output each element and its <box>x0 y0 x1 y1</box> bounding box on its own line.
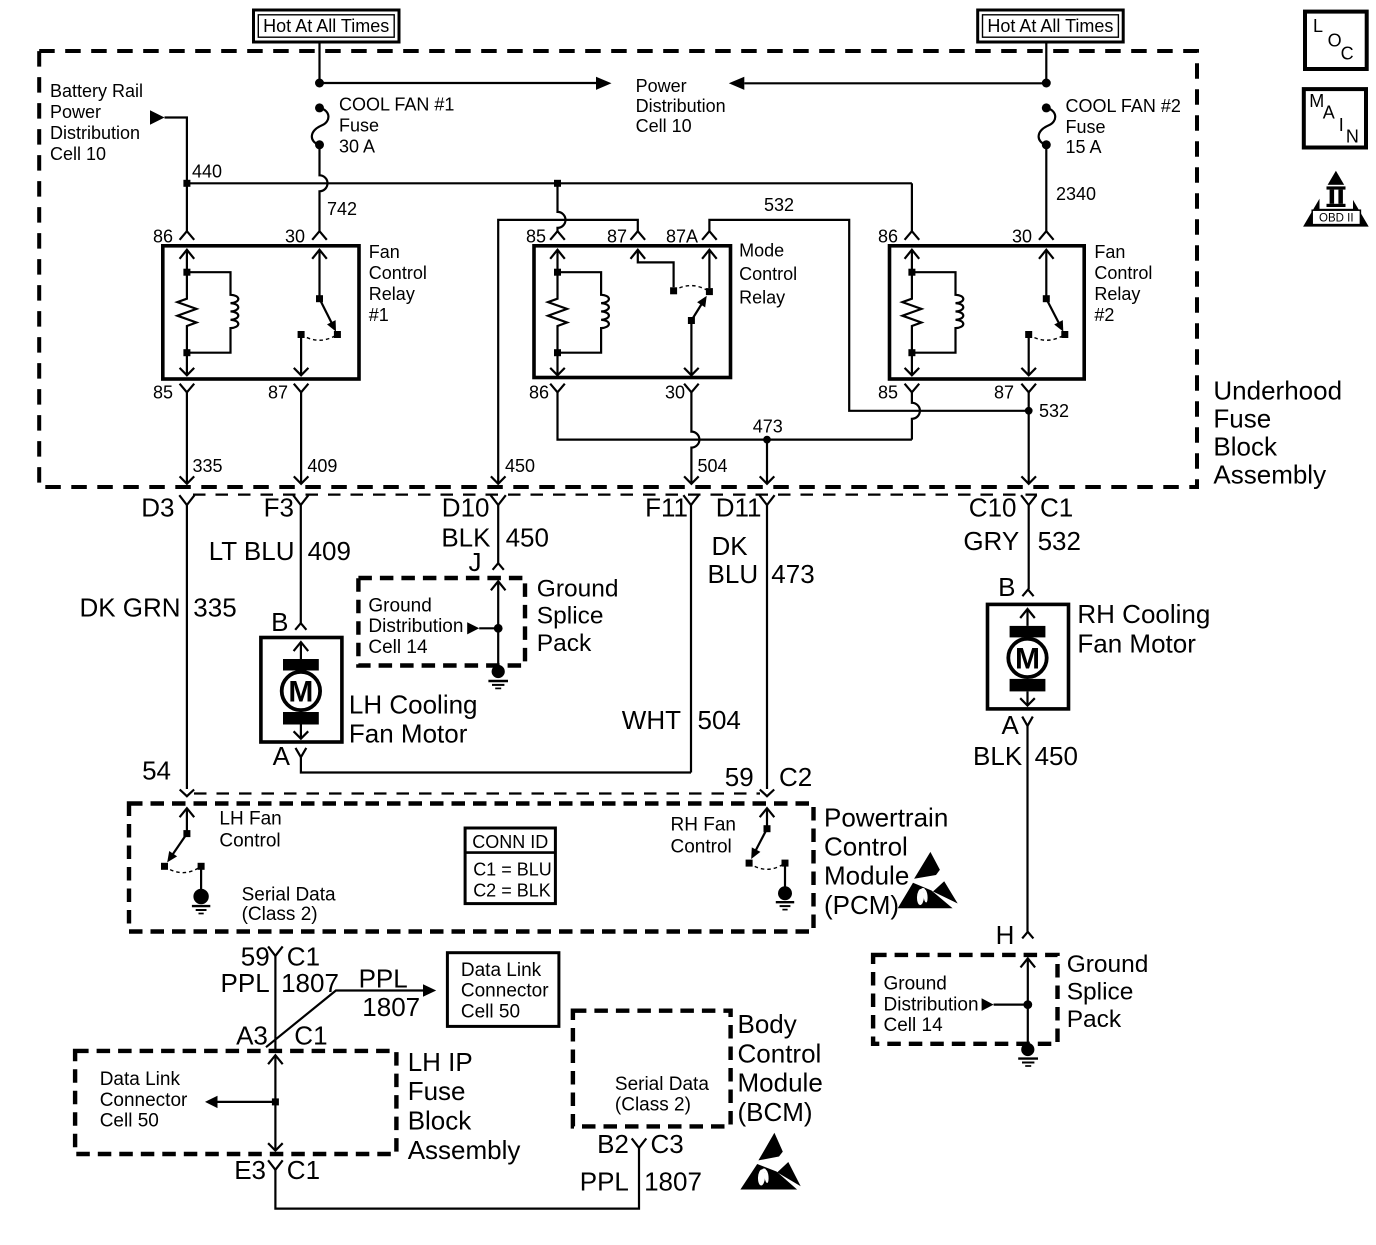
svg-text:Body: Body <box>738 1009 797 1039</box>
svg-text:473: 473 <box>771 559 814 589</box>
svg-text:742: 742 <box>327 199 357 219</box>
wire PPL 1807 (PCM to LH IP fuse block) <box>274 956 276 1050</box>
relay coil arrow pin (top) <box>180 250 195 259</box>
label Serial Data (Class 2) PCM <box>242 884 336 925</box>
relay coil resistor <box>902 272 921 353</box>
label COOL FAN #2 Fuse 15 A <box>1066 96 1181 157</box>
svg-text:Mode: Mode <box>739 241 784 261</box>
relay coil inductor <box>912 272 963 353</box>
relay coil arrow pin (top) <box>550 250 565 259</box>
wire 473 branch to D11 <box>766 440 768 484</box>
svg-text:C1 = BLU: C1 = BLU <box>473 859 552 879</box>
svg-text:Control: Control <box>369 263 427 283</box>
splice pin H <box>1022 932 1033 939</box>
svg-text:87: 87 <box>994 383 1014 403</box>
svg-text:Underhood: Underhood <box>1213 376 1342 406</box>
svg-text:Ground: Ground <box>368 595 431 616</box>
svg-text:30: 30 <box>285 227 305 247</box>
ground splice (RH) <box>1018 1043 1038 1066</box>
svg-text:I: I <box>1339 115 1344 135</box>
svg-text:85: 85 <box>153 383 173 403</box>
relay coil resistor <box>548 272 567 353</box>
svg-text:Splice: Splice <box>537 603 604 630</box>
svg-text:F11: F11 <box>645 493 688 523</box>
relay2 pin 87 <box>1021 384 1036 393</box>
relay2 pin 30 <box>1039 231 1054 240</box>
svg-text:M: M <box>1015 642 1040 675</box>
relay coil resistor <box>177 272 196 353</box>
LH fan control driver (PCM) <box>180 808 195 817</box>
svg-text:LH Cooling: LH Cooling <box>349 690 478 720</box>
svg-text:1807: 1807 <box>644 1166 702 1196</box>
label Underhood Fuse Block Assembly <box>1213 376 1342 490</box>
svg-text:COOL FAN #2: COOL FAN #2 <box>1066 96 1181 116</box>
svg-text:Distribution: Distribution <box>50 123 140 143</box>
svg-text:504: 504 <box>698 456 728 476</box>
svg-text:Relay: Relay <box>739 288 785 308</box>
ground splice (LH) <box>488 665 508 689</box>
svg-text:85: 85 <box>526 227 546 247</box>
svg-text:RH Cooling: RH Cooling <box>1077 599 1210 629</box>
wire BLK 450 (D10 to ground splice pack) <box>497 505 499 563</box>
svg-text:Fuse: Fuse <box>1213 404 1271 434</box>
svg-text:Fuse: Fuse <box>1066 117 1106 137</box>
wire DK GRN 335 (D3 to PCM) <box>186 505 188 789</box>
node Ground Distribution Cell 14 (RH) <box>884 974 1028 1037</box>
svg-text:Hot At All Times: Hot At All Times <box>263 16 389 36</box>
RH motor terminal B <box>1022 590 1033 597</box>
connector pin F11 <box>683 495 698 505</box>
legend OBD II symbol <box>1303 171 1369 227</box>
label Mode Control Relay <box>739 241 797 308</box>
svg-text:Control: Control <box>739 264 797 284</box>
fan control relay #1 box <box>163 246 359 379</box>
CONN ID table <box>465 828 555 904</box>
wire 440 <box>187 182 912 184</box>
svg-text:Data Link: Data Link <box>461 960 542 981</box>
ground symbol (RH fan driver) <box>776 886 794 909</box>
label Body Control Module (BCM) <box>738 1009 823 1127</box>
ground symbol (LH fan driver) <box>192 889 210 914</box>
svg-text:BLK: BLK <box>441 523 491 553</box>
svg-text:LT BLU: LT BLU <box>209 536 295 566</box>
wire hot1 to fuse <box>318 42 320 83</box>
svg-text:A: A <box>273 741 291 771</box>
connector E3 C1 <box>268 1160 283 1170</box>
svg-text:B: B <box>998 572 1015 602</box>
svg-text:409: 409 <box>307 456 337 476</box>
ground splice pack (RH) wire <box>1021 958 1036 967</box>
svg-text:Cell 10: Cell 10 <box>50 144 106 164</box>
wire hot2 to fuse2 <box>1045 42 1047 83</box>
svg-text:Control: Control <box>219 831 280 852</box>
svg-text:Assembly: Assembly <box>1213 460 1326 490</box>
label Ground Splice Pack (LH) <box>537 575 619 657</box>
svg-text:Control: Control <box>824 832 908 862</box>
wire 335 (relay1 85 to D3) <box>186 392 188 484</box>
svg-text:GRY: GRY <box>963 526 1019 556</box>
svg-text:C2 = BLK: C2 = BLK <box>473 881 551 901</box>
svg-text:Battery Rail: Battery Rail <box>50 81 143 101</box>
relay1 pin 85 <box>180 384 195 393</box>
wire WHT 504 (F11) <box>690 505 692 773</box>
wire LT BLU 409 (F3 to LH fan motor) <box>300 505 302 623</box>
svg-text:473: 473 <box>753 417 783 437</box>
svg-text:L: L <box>1313 16 1323 36</box>
wire BLK 450 (RH motor A to ground splice H) <box>1026 726 1028 932</box>
wire arrow to data link connector (left) <box>217 1101 275 1103</box>
svg-text:504: 504 <box>698 705 741 735</box>
svg-text:Pack: Pack <box>537 630 592 657</box>
wire GRY 532 (C10 to RH fan motor) <box>1028 505 1030 589</box>
svg-text:30 A: 30 A <box>339 137 375 157</box>
svg-text:CONN ID: CONN ID <box>472 832 548 852</box>
svg-text:PPL: PPL <box>580 1166 629 1196</box>
svg-text:86: 86 <box>153 227 173 247</box>
svg-text:DK: DK <box>711 531 748 561</box>
svg-text:Relay: Relay <box>1094 284 1140 304</box>
svg-text:30: 30 <box>665 383 685 403</box>
label Power Distribution Cell 10 <box>636 76 726 136</box>
svg-text:A: A <box>1323 103 1335 123</box>
hot at all times box 1 <box>254 10 400 42</box>
svg-text:Block: Block <box>408 1106 473 1136</box>
svg-text:LH Fan: LH Fan <box>219 808 281 829</box>
svg-text:Cell 50: Cell 50 <box>100 1111 159 1132</box>
node Data Link Connector Cell 50 (IP) <box>100 1069 188 1132</box>
wire 450 (mode 87 to D10) <box>498 220 638 484</box>
connector pin F3 <box>293 495 308 505</box>
svg-text:BLU: BLU <box>708 559 759 589</box>
ESD warning symbol (BCM) <box>740 1133 800 1190</box>
mode relay switch <box>631 250 646 259</box>
svg-text:B: B <box>271 607 288 637</box>
junction data link tap <box>272 1098 279 1105</box>
svg-text:A3: A3 <box>236 1021 268 1051</box>
wire LH motor A to F11 (WHT 504 return) <box>301 757 691 772</box>
svg-text:OBD II: OBD II <box>1319 213 1354 225</box>
wire 440 to relay2 86 <box>911 183 913 231</box>
svg-text:Ground: Ground <box>537 575 619 602</box>
svg-text:Distribution: Distribution <box>884 994 979 1015</box>
svg-text:Hot At All Times: Hot At All Times <box>987 16 1113 36</box>
wire 440 branch to mode 85 (hops) <box>558 183 566 231</box>
svg-text:Serial Data: Serial Data <box>242 884 336 905</box>
svg-text:Fan: Fan <box>1094 242 1125 262</box>
svg-text:Power: Power <box>636 76 687 96</box>
wire tap PPL 1807 to data link connector <box>266 991 423 1048</box>
legend MAIN box <box>1304 89 1366 147</box>
wire relay2 85 drop (hops over 532) <box>912 392 920 439</box>
svg-text:87: 87 <box>268 383 288 403</box>
mode relay pin 30 <box>684 384 699 393</box>
wire 2340 <box>1045 145 1047 231</box>
svg-text:Cell 14: Cell 14 <box>884 1015 944 1036</box>
fan control relay #2 box <box>890 246 1085 379</box>
svg-text:DK GRN: DK GRN <box>79 593 180 623</box>
wire through LH IP fuse block <box>268 1055 283 1064</box>
mode control relay box <box>534 246 731 378</box>
svg-text:Fan Motor: Fan Motor <box>349 719 468 749</box>
connector pin 59 C1 (PCM serial data) <box>268 946 283 956</box>
junction 532 <box>1025 407 1033 415</box>
label Serial Data (Class 2) BCM <box>615 1074 709 1116</box>
label Ground Splice Pack (RH) <box>1067 951 1149 1033</box>
svg-text:87: 87 <box>607 227 627 247</box>
wire arrow from right hot feed to Power Distribution <box>729 77 745 90</box>
svg-text:Module: Module <box>738 1068 823 1098</box>
svg-text:54: 54 <box>142 756 171 786</box>
svg-text:(Class 2): (Class 2) <box>242 904 318 925</box>
label Powertrain Control Module (PCM) <box>824 803 948 920</box>
ground splice pack (RH) dashed box <box>873 955 1057 1044</box>
svg-text:Power: Power <box>50 102 101 122</box>
svg-text:(BCM): (BCM) <box>738 1097 813 1127</box>
relay1 switch <box>312 250 327 259</box>
svg-text:Fan: Fan <box>369 242 400 262</box>
svg-text:Cell 50: Cell 50 <box>461 1002 520 1023</box>
svg-text:A: A <box>1001 710 1019 740</box>
data link connector cell 50 box (solid) <box>447 953 559 1027</box>
svg-text:Pack: Pack <box>1067 1006 1122 1033</box>
svg-text:Splice: Splice <box>1067 978 1134 1005</box>
fuse COOL FAN #2 15A <box>1042 103 1051 112</box>
label LH Fan Control <box>219 808 281 851</box>
label Fan Control Relay #1 <box>369 242 427 325</box>
label RH Cooling Fan Motor <box>1077 599 1210 658</box>
svg-text:M: M <box>288 676 313 709</box>
svg-text:#1: #1 <box>369 305 389 325</box>
connector pin 59 C2 (PCM) <box>760 790 774 797</box>
svg-text:2340: 2340 <box>1056 184 1096 204</box>
junction 440 left <box>183 180 190 187</box>
label COOL FAN #1 Fuse 30 A <box>339 95 454 157</box>
ESD warning symbol (PCM) <box>898 852 958 908</box>
svg-text:Fuse: Fuse <box>339 116 379 136</box>
svg-text:O: O <box>1328 30 1342 50</box>
RH fan control driver (PCM) <box>760 808 775 817</box>
relay2 pin 85 <box>905 384 920 393</box>
svg-text:C1: C1 <box>294 1021 327 1051</box>
wire arrow to Power Distribution Cell 10 (left) <box>320 82 597 84</box>
connector pin D11 <box>759 495 774 505</box>
label RH Fan Control <box>671 815 736 858</box>
svg-text:C1: C1 <box>287 1155 320 1185</box>
svg-text:532: 532 <box>764 195 794 215</box>
svg-text:Powertrain: Powertrain <box>824 803 948 833</box>
svg-text:86: 86 <box>878 227 898 247</box>
svg-text:J: J <box>469 547 482 577</box>
wire 742 (hops over 440) <box>320 145 328 231</box>
legend LOC box <box>1305 12 1367 69</box>
LH IP fuse block assembly dashed box <box>75 1051 396 1154</box>
svg-text:E3: E3 <box>234 1155 266 1185</box>
fuse COOL FAN #1 30A <box>315 103 324 112</box>
connector B2 C3 (BCM) <box>632 1138 647 1148</box>
wire 473 (mode 86 to relay2 85) <box>558 392 912 439</box>
svg-text:Cell 14: Cell 14 <box>368 637 428 658</box>
node Battery Rail Power Distribution Cell 10 <box>50 81 165 164</box>
LH cooling fan motor M1 <box>261 638 342 743</box>
wire E3 to BCM B2 <box>275 1148 639 1209</box>
svg-text:B2: B2 <box>597 1129 629 1159</box>
junction 473 <box>763 436 771 444</box>
svg-text:C3: C3 <box>651 1129 684 1159</box>
relay2 switch <box>1039 250 1054 259</box>
junction 440 / mode relay 85 <box>554 180 561 187</box>
relay1 pin 30 <box>312 231 327 240</box>
svg-text:450: 450 <box>506 523 549 553</box>
svg-text:Relay: Relay <box>369 284 415 304</box>
wire 409 (relay1 87 to F3) <box>300 392 302 484</box>
svg-text:Connector: Connector <box>461 981 549 1002</box>
connector pin 54 (PCM) <box>180 790 194 797</box>
svg-text:PPL: PPL <box>221 968 270 998</box>
svg-text:Control: Control <box>671 836 732 857</box>
svg-text:PPL: PPL <box>359 964 408 994</box>
underhood fuse block assembly dashed border <box>39 51 1197 487</box>
powertrain control module dashed box <box>129 804 814 932</box>
mode relay pin 87A <box>702 231 717 240</box>
svg-text:LH IP: LH IP <box>408 1047 473 1077</box>
svg-text:WHT: WHT <box>622 705 681 735</box>
relay1 pin 86 <box>180 231 195 240</box>
svg-text:Ground: Ground <box>884 974 947 995</box>
relay2 pin 86 <box>905 231 920 240</box>
svg-text:Control: Control <box>738 1038 822 1068</box>
label Fan Control Relay #2 <box>1094 242 1152 325</box>
svg-text:Distribution: Distribution <box>636 96 726 116</box>
connector pin D3 <box>179 495 194 505</box>
svg-text:(Class 2): (Class 2) <box>615 1095 691 1116</box>
svg-text:C2: C2 <box>779 762 812 792</box>
node Ground Distribution Cell 14 (LH) <box>368 595 498 658</box>
svg-text:15 A: 15 A <box>1066 137 1102 157</box>
svg-text:86: 86 <box>529 383 549 403</box>
svg-text:335: 335 <box>193 456 223 476</box>
svg-text:450: 450 <box>1035 741 1078 771</box>
svg-text:Fuse: Fuse <box>408 1076 466 1106</box>
svg-text:59: 59 <box>725 762 754 792</box>
mode relay pin 85 <box>550 231 565 240</box>
svg-text:440: 440 <box>192 162 222 182</box>
svg-text:Distribution: Distribution <box>368 616 463 637</box>
RH motor terminal A <box>1022 717 1033 726</box>
relay coil inductor <box>558 272 609 353</box>
svg-text:(PCM): (PCM) <box>824 890 899 920</box>
hot at all times box 2 <box>978 10 1123 42</box>
svg-text:450: 450 <box>505 456 535 476</box>
junction splice LH <box>494 624 503 633</box>
wire DK BLU 473 (D11 to PCM 59 C2) <box>766 505 768 789</box>
wire battery feed to 440 <box>165 118 187 232</box>
label LH Cooling Fan Motor <box>349 690 478 749</box>
svg-text:Cell 10: Cell 10 <box>636 116 692 136</box>
wire 532 (mode 87A to relay2 87) <box>709 220 1028 411</box>
svg-text:409: 409 <box>308 536 351 566</box>
RH cooling fan motor M2 <box>988 604 1069 709</box>
wire 532 (relay2 87 to C10) <box>1028 392 1030 484</box>
LH motor terminal B <box>295 623 306 630</box>
svg-text:H: H <box>996 920 1015 950</box>
svg-text:COOL FAN #1: COOL FAN #1 <box>339 95 454 115</box>
svg-text:1807: 1807 <box>362 992 420 1022</box>
svg-text:Ground: Ground <box>1067 951 1149 978</box>
svg-text:Data Link: Data Link <box>100 1069 181 1090</box>
svg-text:1807: 1807 <box>281 968 339 998</box>
svg-text:C10: C10 <box>969 493 1017 523</box>
body control module serial data dashed box <box>573 1011 731 1127</box>
mode relay pin 86 <box>550 384 565 393</box>
svg-text:C1: C1 <box>1040 493 1073 523</box>
junction power distribution right <box>1042 79 1051 88</box>
svg-text:Module: Module <box>824 861 909 891</box>
ground splice pack (LH) dashed box <box>358 578 525 666</box>
splice pin J <box>493 563 504 570</box>
svg-text:335: 335 <box>193 593 236 623</box>
PCM connector dashed line <box>194 792 760 794</box>
relay1 pin 87 <box>294 384 309 393</box>
svg-text:F3: F3 <box>264 493 294 523</box>
relay coil arrow pin (top) <box>905 250 920 259</box>
underhood connector dashed line <box>193 494 1037 496</box>
LH motor terminal A <box>296 748 307 757</box>
svg-text:87A: 87A <box>666 227 698 247</box>
svg-text:D3: D3 <box>141 493 174 523</box>
svg-text:Serial Data: Serial Data <box>615 1074 709 1095</box>
svg-text:Control: Control <box>1094 263 1152 283</box>
svg-text:532: 532 <box>1039 401 1069 421</box>
mode relay pin 87 <box>631 231 646 240</box>
junction power distribution left <box>315 79 324 88</box>
junction splice RH <box>1023 1000 1032 1009</box>
svg-text:C: C <box>1341 43 1354 63</box>
svg-text:30: 30 <box>1012 227 1032 247</box>
relay coil inductor <box>187 272 238 353</box>
svg-text:85: 85 <box>878 383 898 403</box>
connector pin D10 <box>491 495 506 505</box>
svg-text:Block: Block <box>1213 432 1278 462</box>
label LH IP Fuse Block Assembly <box>408 1047 521 1165</box>
connector pin C10 <box>1021 495 1036 505</box>
svg-text:D11: D11 <box>716 493 762 523</box>
svg-text:Fan Motor: Fan Motor <box>1077 628 1196 658</box>
svg-text:N: N <box>1346 127 1359 147</box>
wire 504 (mode 30 to F11, hops over 473) <box>691 392 699 484</box>
svg-text:532: 532 <box>1038 526 1081 556</box>
ground splice pack (LH) wire <box>491 581 506 590</box>
svg-text:Connector: Connector <box>100 1090 188 1111</box>
svg-text:BLK: BLK <box>973 741 1023 771</box>
svg-text:D10: D10 <box>442 493 490 523</box>
svg-text:Assembly: Assembly <box>408 1135 521 1165</box>
svg-text:#2: #2 <box>1094 305 1114 325</box>
svg-text:RH Fan: RH Fan <box>671 815 736 836</box>
